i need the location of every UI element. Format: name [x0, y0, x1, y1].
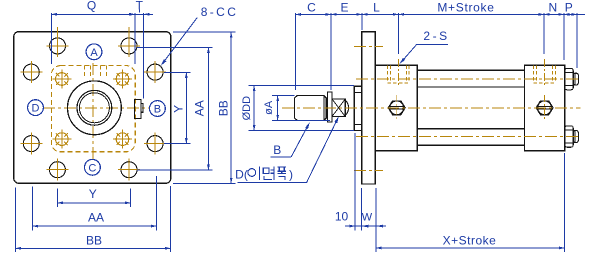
svg-text:E: E [340, 1, 348, 15]
svg-text:): ) [289, 168, 293, 182]
svg-text:A: A [90, 47, 98, 59]
svg-text:10: 10 [335, 210, 349, 224]
svg-text:D: D [32, 103, 40, 115]
svg-text:B: B [154, 104, 161, 116]
svg-text:ØDD: ØDD [241, 96, 253, 121]
svg-text:D(: D( [235, 168, 248, 182]
svg-text:M+Stroke: M+Stroke [437, 1, 494, 15]
svg-text:AA: AA [88, 210, 104, 224]
svg-text:C: C [307, 1, 316, 15]
svg-text:BB: BB [216, 100, 230, 116]
svg-text:Y: Y [89, 187, 97, 201]
svg-text:C: C [88, 162, 96, 174]
svg-text:AA: AA [192, 100, 206, 116]
svg-text:2-S: 2-S [423, 29, 449, 43]
svg-text:Q: Q [87, 0, 96, 13]
svg-text:8-CC: 8-CC [201, 5, 239, 19]
svg-text:BB: BB [86, 233, 102, 247]
svg-text:øA: øA [263, 100, 275, 115]
svg-text:X+Stroke: X+Stroke [443, 233, 497, 247]
svg-text:Y: Y [172, 105, 186, 113]
svg-text:N: N [548, 0, 557, 14]
svg-text:W: W [362, 211, 373, 223]
svg-text:B: B [273, 143, 281, 157]
svg-text:L: L [373, 1, 380, 15]
svg-text:P: P [565, 0, 573, 14]
